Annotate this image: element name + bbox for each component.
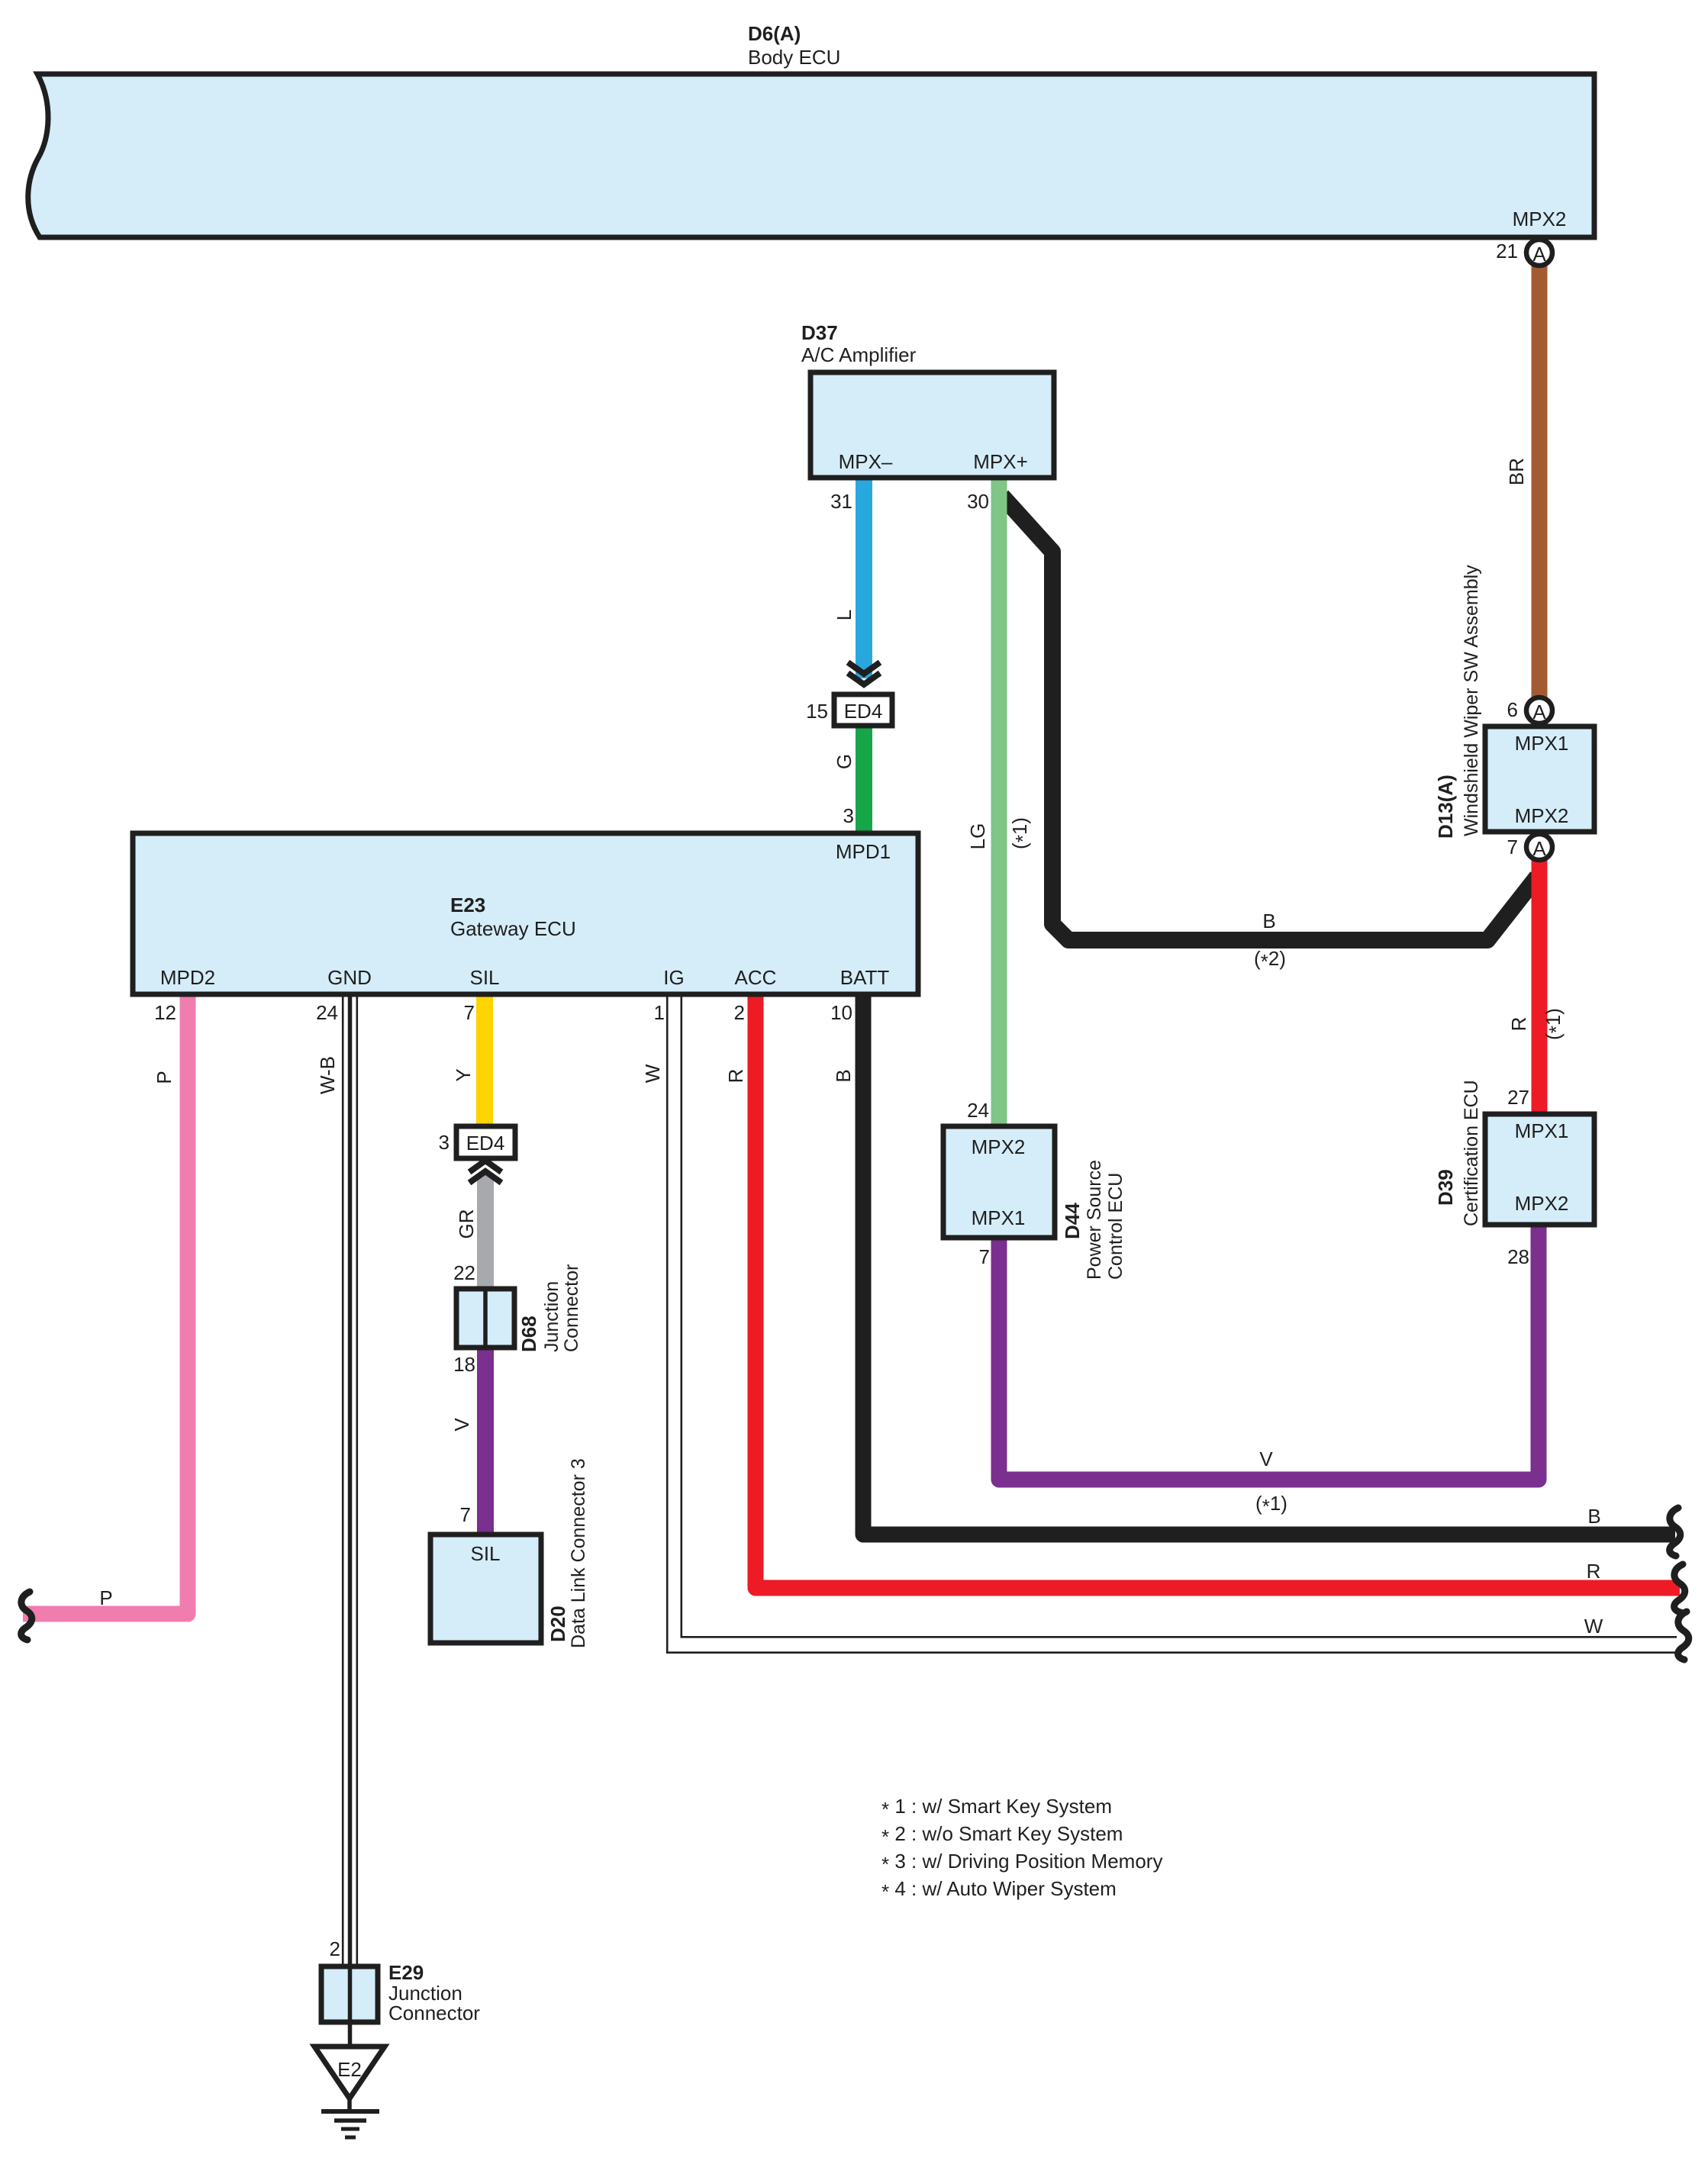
svg-text:7: 7 — [1507, 836, 1518, 858]
svg-text:D37: D37 — [801, 321, 838, 344]
svg-text:(*1): (*1) — [1542, 1008, 1568, 1040]
svg-text:31: 31 — [830, 490, 852, 513]
svg-text:12: 12 — [154, 1001, 176, 1024]
svg-text:L: L — [833, 610, 856, 620]
svg-text:Y: Y — [452, 1068, 475, 1081]
svg-text:D20: D20 — [546, 1605, 569, 1642]
svg-text:MPX2: MPX2 — [1515, 1192, 1569, 1215]
svg-text:BR: BR — [1505, 458, 1528, 485]
svg-text:E2: E2 — [337, 2058, 362, 2081]
connector D13(A) Windshield Wiper SW Assembly — [1485, 726, 1594, 832]
connector D20 Data Link Connector 3 — [430, 1535, 541, 1643]
wire P from E23 MPD2 pin 12 to left break — [23, 992, 188, 1614]
connector D44 Power Source Control ECU — [943, 1126, 1055, 1238]
arrow double chevron down into ED4 — [848, 662, 880, 684]
svg-text:W: W — [1584, 1615, 1603, 1638]
svg-text:ACC: ACC — [735, 966, 777, 989]
svg-text:MPX1: MPX1 — [1515, 732, 1569, 755]
connector D6(A) Body ECU box with torn left edge — [28, 74, 1594, 237]
svg-text:W-B: W-B — [316, 1056, 339, 1094]
wire GR from ED4 to D68 pin 22 — [477, 1175, 494, 1292]
svg-text:Certification ECU: Certification ECU — [1461, 1080, 1482, 1226]
ground E2 symbol — [314, 2047, 385, 2137]
node A circle at D13(A) pin 7 — [1526, 834, 1552, 860]
wire W from E23 IG pin 1 to right break — [666, 992, 1677, 1654]
svg-text:2: 2 — [330, 1937, 340, 1960]
wire G from ED4 pin 15 to E23 MPD1 pin 3 — [856, 723, 872, 836]
connector D68 Junction Connector — [456, 1289, 514, 1348]
wire W-B from E23 GND pin 24 to E29 — [342, 992, 358, 1969]
svg-text:6: 6 — [1507, 698, 1518, 721]
svg-text:27: 27 — [1507, 1086, 1529, 1109]
svg-text:24: 24 — [967, 1099, 989, 1122]
svg-text:7: 7 — [979, 1245, 990, 1268]
svg-text:MPD1: MPD1 — [836, 840, 891, 863]
wire BR from D6(A) pin 21 to D13(A) pin 6 — [1532, 266, 1548, 698]
svg-text:18: 18 — [453, 1353, 475, 1376]
svg-text:B: B — [1587, 1505, 1600, 1528]
svg-text:* 3 : w/ Driving Position Memo: * 3 : w/ Driving Position Memory — [881, 1850, 1162, 1876]
connector E23 Gateway ECU box — [133, 833, 918, 994]
svg-text:R: R — [1587, 1560, 1601, 1583]
svg-text:IG: IG — [663, 966, 684, 989]
svg-text:30: 30 — [967, 490, 989, 513]
svg-text:A: A — [1532, 243, 1546, 266]
svg-text:28: 28 — [1507, 1245, 1529, 1268]
svg-text:(*2): (*2) — [1254, 947, 1286, 973]
svg-text:MPX2: MPX2 — [972, 1135, 1026, 1158]
connector ED4 junction (L/G wire) — [834, 694, 892, 726]
svg-text:B: B — [832, 1069, 855, 1082]
break squiggle at R wire right end — [1674, 1564, 1685, 1612]
svg-text:Junction: Junction — [541, 1281, 562, 1352]
svg-text:A: A — [1532, 837, 1546, 860]
svg-text:R: R — [1507, 1017, 1530, 1032]
wire B (*2) from D37 MPX+ pin 30 to D13(A) pin 7 node — [1002, 496, 1537, 940]
svg-text:A/C Amplifier: A/C Amplifier — [801, 343, 917, 366]
svg-text:3: 3 — [439, 1131, 450, 1154]
svg-text:MPD2: MPD2 — [160, 966, 215, 989]
svg-text:* 4 : w/ Auto Wiper System: * 4 : w/ Auto Wiper System — [881, 1877, 1117, 1903]
svg-text:2: 2 — [734, 1001, 745, 1024]
svg-text:V: V — [1259, 1448, 1273, 1470]
svg-text:MPX–: MPX– — [839, 450, 893, 473]
svg-text:7: 7 — [460, 1503, 471, 1526]
svg-text:D44: D44 — [1061, 1203, 1084, 1239]
svg-text:R: R — [724, 1069, 747, 1084]
svg-text:MPX1: MPX1 — [1515, 1119, 1569, 1142]
svg-text:P: P — [99, 1586, 112, 1609]
svg-text:D13(A): D13(A) — [1434, 775, 1457, 839]
arrow double chevron up into ED4 — [469, 1161, 501, 1183]
connector D39 Certification ECU — [1485, 1114, 1594, 1225]
svg-text:24: 24 — [316, 1001, 338, 1024]
wire L from D37 pin 31 to ED4 — [856, 479, 872, 678]
svg-text:Power Source: Power Source — [1084, 1160, 1105, 1280]
svg-text:Data Link Connector 3: Data Link Connector 3 — [568, 1458, 589, 1648]
svg-text:G: G — [833, 754, 856, 769]
svg-text:10: 10 — [830, 1001, 852, 1024]
svg-text:LG: LG — [966, 823, 989, 850]
svg-text:Windshield Wiper SW Assembly: Windshield Wiper SW Assembly — [1461, 565, 1482, 836]
svg-text:V: V — [450, 1418, 473, 1432]
svg-text:Connector: Connector — [561, 1264, 582, 1352]
svg-text:SIL: SIL — [469, 966, 499, 989]
svg-text:1: 1 — [654, 1001, 665, 1024]
wire B from E23 BATT pin 10 to right break — [863, 992, 1675, 1535]
svg-text:B: B — [1262, 910, 1275, 932]
svg-text:MPX1: MPX1 — [972, 1206, 1026, 1229]
connector E29 Junction Connector — [321, 1966, 378, 2022]
svg-text:BATT: BATT — [840, 966, 890, 989]
svg-text:P: P — [153, 1071, 176, 1084]
break squiggle at B wire right end — [1670, 1508, 1681, 1556]
svg-text:Control ECU: Control ECU — [1105, 1173, 1126, 1280]
svg-text:Body ECU: Body ECU — [748, 46, 840, 69]
svg-text:* 2 : w/o Smart Key System: * 2 : w/o Smart Key System — [881, 1822, 1123, 1848]
svg-text:15: 15 — [806, 700, 828, 723]
break squiggle at P wire left end — [21, 1592, 32, 1640]
wire V from D44 pin 7 to D39 pin 28 — [999, 1222, 1539, 1480]
wire from E29 to ground — [348, 2022, 353, 2048]
wire LG from D37 pin 30 to D44 pin 24 — [991, 479, 1007, 1129]
connector D37 A/C Amplifier box — [810, 372, 1054, 478]
svg-text:ED4: ED4 — [844, 700, 883, 723]
svg-text:Connector: Connector — [388, 2002, 480, 2024]
wire V from D68 pin 18 to D20 SIL pin 7 — [477, 1345, 494, 1537]
svg-text:ED4: ED4 — [466, 1132, 505, 1155]
svg-text:E29: E29 — [388, 1961, 424, 1984]
svg-text:MPX+: MPX+ — [973, 450, 1028, 473]
wire R from D13(A) pin 7 to D39 pin 27 — [1532, 858, 1548, 1117]
break squiggle at W wire right end — [1678, 1612, 1689, 1660]
svg-text:GND: GND — [327, 966, 372, 989]
svg-text:21: 21 — [1496, 240, 1518, 262]
svg-text:W: W — [641, 1064, 664, 1083]
svg-text:(*1): (*1) — [1255, 1492, 1287, 1518]
svg-text:A: A — [1532, 700, 1546, 723]
svg-text:SIL: SIL — [470, 1542, 500, 1565]
node A circle at D6(A) pin 21 — [1526, 240, 1552, 266]
svg-text:MPX2: MPX2 — [1513, 208, 1567, 230]
svg-text:MPX2: MPX2 — [1515, 804, 1569, 827]
svg-text:D6(A): D6(A) — [748, 22, 801, 45]
svg-text:3: 3 — [843, 804, 854, 827]
svg-text:D68: D68 — [517, 1316, 540, 1352]
svg-text:* 1 : w/ Smart Key System: * 1 : w/ Smart Key System — [881, 1795, 1112, 1821]
wire Y from E23 SIL pin 7 to ED4 — [476, 992, 493, 1129]
connector ED4 junction (Y/GR wire) — [456, 1126, 515, 1158]
svg-text:(*1): (*1) — [1008, 817, 1034, 849]
svg-text:E23: E23 — [450, 894, 485, 916]
wire R from E23 ACC pin 2 to right break — [756, 992, 1680, 1588]
svg-text:GR: GR — [455, 1209, 478, 1239]
svg-text:Gateway ECU: Gateway ECU — [450, 917, 576, 940]
svg-text:7: 7 — [464, 1001, 475, 1024]
svg-text:22: 22 — [453, 1261, 475, 1284]
svg-text:D39: D39 — [1434, 1169, 1457, 1206]
node A circle at D13(A) pin 6 — [1526, 697, 1552, 723]
